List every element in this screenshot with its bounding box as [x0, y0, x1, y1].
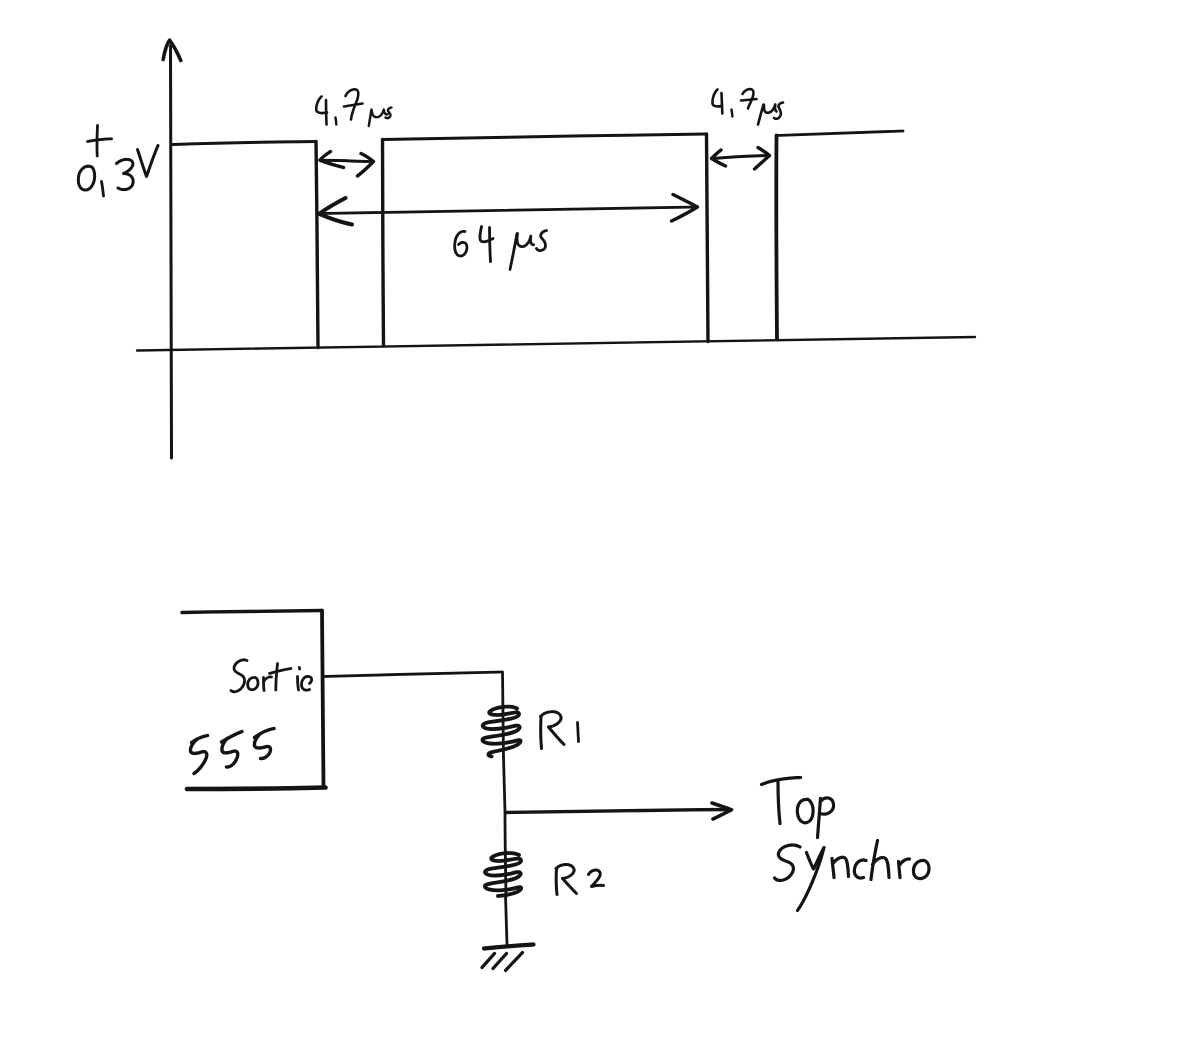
node: R1/R2 junction with output arrow (Top Synchro)	[506, 803, 732, 819]
gap width arrow 1 (double-headed, first gap)	[320, 152, 374, 177]
IC U1: 555 box (open left side)	[182, 611, 326, 790]
wire: 555 output to R1 top corner	[323, 672, 504, 758]
time axis baseline	[137, 337, 975, 351]
resistor R2 (scribbled coil)	[485, 853, 521, 896]
wire: R1 bottom to junction node	[504, 757, 506, 812]
label R2	[556, 864, 604, 894]
waveform pulse 3 (rising edge + top)	[776, 131, 903, 340]
label 4,7 µs (second gap)	[712, 89, 783, 124]
label Top Synchro	[762, 778, 930, 911]
label +0,3V (amplitude)	[78, 126, 158, 197]
label 555	[190, 729, 274, 774]
wire: R2 bottom to ground	[506, 896, 508, 944]
period arrow 64 µs (double-headed between falling edges)	[319, 195, 697, 225]
voltage axis (vertical with arrowhead)	[163, 40, 181, 458]
label Sortie (555 output pin)	[231, 660, 312, 692]
gap width arrow 2 (double-headed, second gap)	[712, 148, 770, 170]
waveform pulse 1 (top + falling edge)	[172, 142, 318, 348]
waveform pulse 2 (rising edge + top + falling edge)	[383, 134, 709, 346]
label 4,7 µs (first gap)	[316, 89, 391, 126]
wire: junction node to R2 top	[505, 813, 506, 898]
label 64 µs	[455, 227, 547, 270]
resistor R1 (scribbled coil)	[482, 707, 520, 757]
label R1	[541, 712, 579, 749]
ground	[482, 945, 534, 971]
